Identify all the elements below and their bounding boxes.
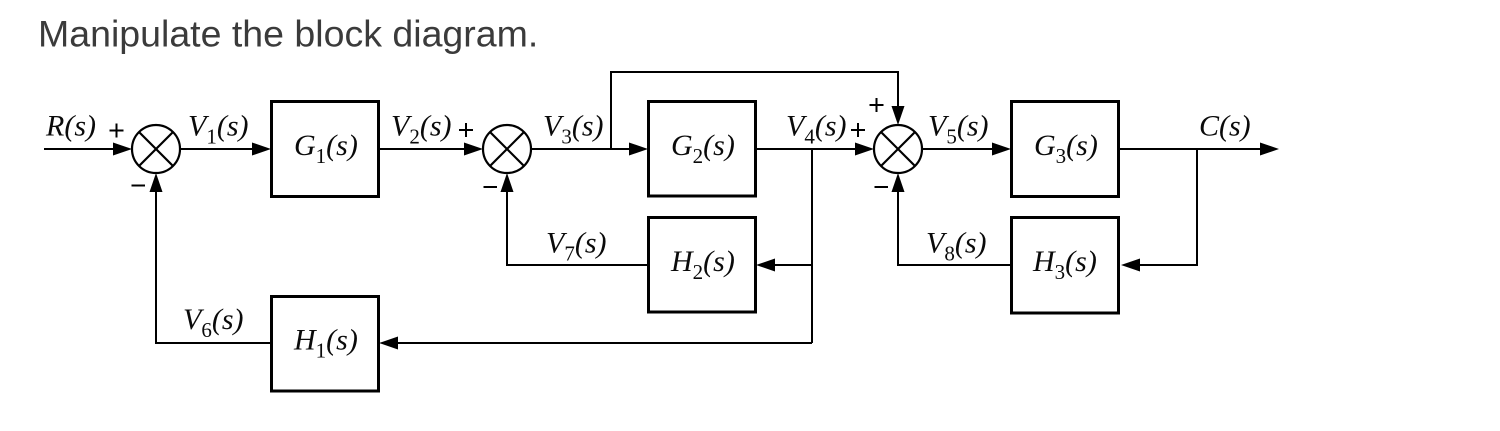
wire V4 takeoff down to H2 and H1 <box>811 149 813 343</box>
wire V4 takeoff to block H1 input <box>379 337 812 350</box>
block G3 <box>1012 102 1119 197</box>
svg-text:R(s): R(s) <box>45 110 96 143</box>
wire S2 to block G2, node V3(s) <box>531 143 648 156</box>
minus sign at S3 <box>875 186 889 188</box>
wire G1 to summing junction S2, node V2(s) <box>379 143 484 156</box>
plus sign at S3 left input <box>851 123 865 137</box>
wire S3 to block G3, node V5(s) <box>922 143 1011 156</box>
plus sign at S3 top input <box>870 98 884 112</box>
wire G2 to summing junction S3, node V4(s) <box>756 143 874 156</box>
wire V3 takeoff up and over to summing junction S3 (plus input) <box>611 72 905 149</box>
wire H3 output to S3 minus input, node V8(s) <box>892 173 1012 265</box>
block H3 <box>1012 218 1119 314</box>
summing junction S1 <box>132 125 180 173</box>
block H1 <box>272 297 379 392</box>
wire H2 output to S2 minus input, node V7(s) <box>501 173 649 265</box>
wire C(s) takeoff down into block H3 input <box>1121 149 1197 272</box>
wire G3 to output C(s) <box>1119 143 1280 156</box>
wire S1 to block G1, node V1(s) <box>180 143 271 156</box>
block H2 <box>649 218 756 313</box>
summing junction S3 <box>874 125 922 173</box>
block G2 <box>649 102 756 197</box>
svg-text:C(s): C(s) <box>1199 110 1251 143</box>
wire R(s) input to summing junction S1 <box>44 143 132 156</box>
svg-text:Manipulate the block diagram.: Manipulate the block diagram. <box>38 13 538 55</box>
summing junction S2 <box>483 125 531 173</box>
plus sign at S2 <box>459 123 473 137</box>
plus sign at S1 <box>110 124 124 138</box>
block G1 <box>272 102 379 197</box>
minus sign at S2 <box>484 186 498 188</box>
wire H1 output to S1 minus input, node V6(s) <box>150 173 272 343</box>
minus sign at S1 <box>132 185 146 187</box>
wire branch into block H2 input <box>756 259 812 272</box>
